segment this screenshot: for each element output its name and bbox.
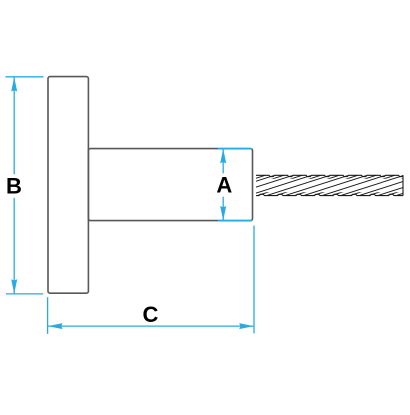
svg-text:B: B: [6, 173, 22, 198]
svg-text:A: A: [216, 173, 232, 198]
svg-text:C: C: [143, 302, 159, 327]
